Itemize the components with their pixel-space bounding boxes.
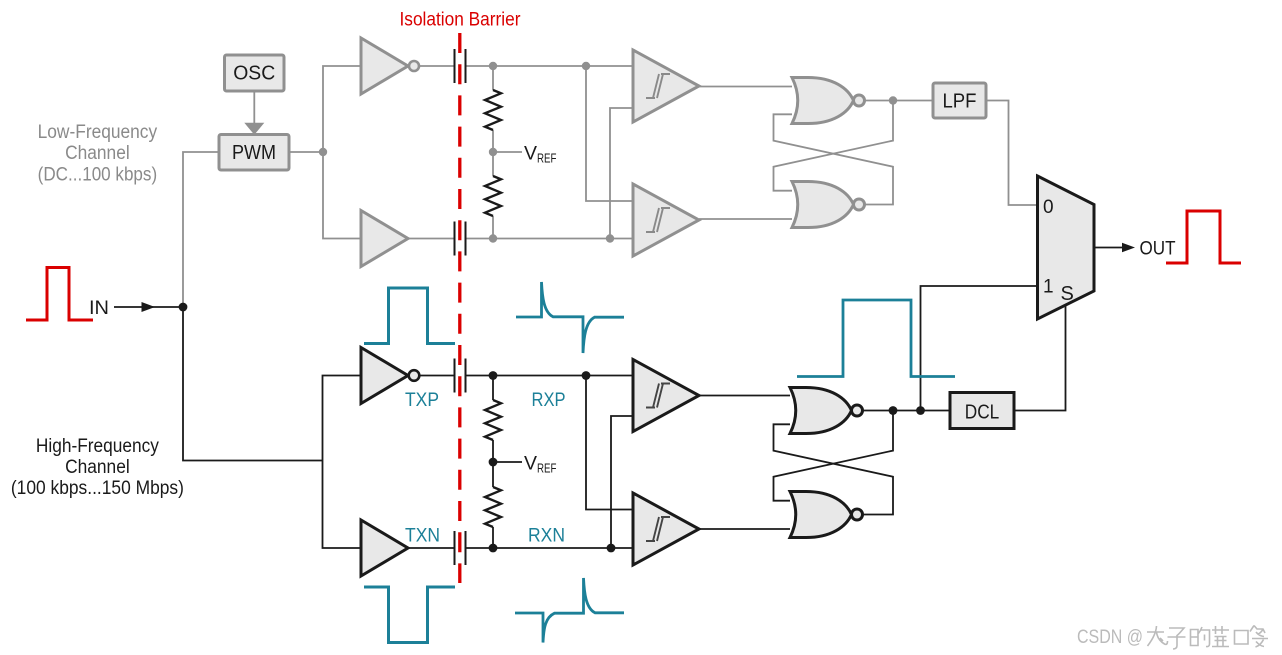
node top rail junction [489, 62, 497, 70]
buffer B2 (non-inverting, bottom) [361, 211, 408, 267]
svg-text:OUT: OUT [1140, 239, 1176, 260]
wire resistor mid column lower [492, 216, 494, 239]
node bottom rail to S1 branch [606, 234, 614, 242]
wire TXN output to cap C4 [409, 547, 454, 549]
PWM box [219, 135, 289, 171]
LPF box [933, 83, 986, 118]
bubble TXP output [409, 370, 420, 381]
arrowhead OSC to PWM [244, 123, 264, 135]
mux [1038, 176, 1095, 319]
wire divider mid column upper [492, 440, 494, 487]
bubble G3 output [852, 405, 863, 416]
svg-text:CSDN @: CSDN @ [1077, 627, 1143, 648]
wire resistor mid column upper [492, 130, 494, 176]
node RXP junction [489, 371, 498, 380]
schmitt symbol S3 [646, 384, 670, 408]
bubble G1 output [854, 95, 865, 106]
wire LPF output to mux input 0 [986, 101, 1038, 206]
wire S3 lower input [611, 416, 633, 548]
wire latch cross-coupling NOR3 node to NOR4 upper input [774, 411, 894, 501]
wire VREF stub bottom [493, 461, 522, 463]
bubble G2 output [854, 199, 865, 210]
node PWM output junction [319, 148, 327, 156]
NOR gate G1 [792, 78, 854, 124]
wire S1 lower input [610, 108, 633, 239]
wire S4 upper input [586, 376, 633, 510]
wire NOR1 output to LPF [865, 100, 934, 102]
resistor R1 [485, 90, 501, 130]
schmitt comparator S1 [633, 50, 699, 122]
schmitt symbol S4 [646, 517, 670, 541]
node VREF tap bottom [489, 458, 498, 467]
node RXN rail to S3 branch [607, 544, 616, 553]
wire NOR3 output to DCL [863, 410, 951, 412]
capacitor C4 [454, 531, 467, 565]
svg-text:0: 0 [1043, 197, 1054, 218]
wire IN trunk down [183, 307, 323, 461]
svg-text:(DC...100 kbps): (DC...100 kbps) [38, 164, 158, 185]
bubble G4 output [852, 509, 863, 520]
capacitor C2 [454, 222, 467, 256]
wire PWM input from IN node [183, 152, 219, 307]
schmitt symbol S2 [646, 208, 670, 232]
DCL box [950, 393, 1014, 429]
node VREF tap top [489, 148, 497, 156]
svg-text:Channel: Channel [65, 143, 130, 164]
wire divider top column [492, 376, 494, 401]
wire IN arrow line [114, 306, 183, 308]
wire divider bottom column [492, 527, 494, 548]
wire RXP rail [467, 375, 634, 377]
wire node to buffer2 input [323, 152, 361, 239]
node bottom rail junction [489, 234, 497, 242]
waveform latch output pulse [797, 300, 955, 377]
svg-text:TXN: TXN [405, 526, 440, 547]
wire TXP output to cap C3 [420, 375, 454, 377]
wire bottom rail RXN side [467, 238, 634, 240]
wire buffer2 output to cap C2 [409, 238, 454, 240]
node bottom latch junction 2 [916, 406, 925, 415]
wire VREF stub top [493, 151, 522, 153]
wire buffer1 output to cap C1 [419, 65, 454, 67]
oscillator box OSC [225, 55, 285, 91]
wire RXN rail [467, 547, 634, 549]
waveform TXN pulse (inverted) [364, 587, 455, 643]
wire PWM output to node [289, 151, 323, 153]
waveform TXP pulse [364, 288, 455, 344]
NOR gate G3 [790, 388, 852, 434]
svg-text:1: 1 [1043, 277, 1054, 298]
wire node to buffer1 input [323, 66, 361, 152]
resistor R2 [485, 176, 501, 216]
waveform RXP spikes [516, 282, 624, 353]
wire latch cross-coupling from NOR1 lower input to NOR2 output [774, 114, 894, 204]
wire trunk to TXN input [323, 461, 362, 549]
NOR gate G2 [792, 182, 854, 228]
buffer TXP (inverting) [361, 348, 408, 404]
wire DCL output to mux select S [1014, 305, 1066, 411]
wire latch node to mux input 1 [921, 286, 1038, 411]
buffer B1 (inverting, top) [361, 38, 408, 94]
svg-text:(100 kbps...150 Mbps): (100 kbps...150 Mbps) [11, 478, 184, 499]
svg-text:High-Frequency: High-Frequency [36, 436, 159, 457]
svg-text:RXN: RXN [528, 526, 565, 547]
wire S1 output to NOR1 [699, 86, 792, 88]
waveform OUT pulse (red) [1166, 211, 1241, 263]
svg-text:IN: IN [89, 298, 109, 319]
svg-text:Low-Frequency: Low-Frequency [38, 122, 158, 143]
svg-text:Channel: Channel [65, 457, 130, 478]
schmitt comparator S4 [633, 493, 699, 565]
svg-text:LPF: LPF [943, 91, 977, 113]
wire S2 upper input [586, 66, 633, 201]
wire mux output [1094, 247, 1123, 249]
bubble B1 output [409, 61, 419, 71]
wire latch cross-coupling from NOR1 output node to NOR2 upper input [774, 101, 894, 191]
svg-text:OSC: OSC [233, 63, 275, 85]
node RXN junction [489, 544, 498, 553]
node top rail to S2 branch [582, 62, 590, 70]
resistor R3 [485, 400, 501, 440]
isolation barrier dashed line [458, 33, 461, 583]
waveform IN pulse (red) [26, 268, 93, 321]
node bottom latch junction 1 [889, 406, 898, 415]
node RXP rail to S4 branch [582, 371, 591, 380]
svg-text:S: S [1061, 283, 1074, 305]
buffer TXN (non-inverting) [361, 520, 408, 576]
wire S2 output to NOR2 [699, 218, 792, 220]
NOR gate G4 [790, 492, 852, 538]
waveform RXN spikes [515, 578, 624, 643]
wire resistor top column [492, 66, 494, 90]
svg-text:TXP: TXP [405, 390, 439, 411]
wire OSC to PWM [253, 91, 255, 126]
resistor R4 [485, 487, 501, 527]
watermark CJK glyphs [1147, 626, 1268, 650]
arrowhead OUT [1122, 243, 1135, 252]
capacitor C3 [454, 359, 467, 393]
node latch output junction [889, 96, 897, 104]
wire S3 output to NOR3 [699, 395, 790, 397]
wire top rail RXP side [467, 65, 634, 67]
node IN junction [179, 303, 188, 312]
arrowhead IN [142, 302, 156, 312]
schmitt comparator S2 [633, 184, 699, 256]
wire S4 output to NOR4 [699, 528, 790, 530]
svg-text:RXP: RXP [532, 390, 566, 411]
schmitt symbol S1 [646, 74, 670, 98]
svg-text:DCL: DCL [965, 402, 1000, 424]
wire latch cross-coupling NOR3 lower input to NOR4 output [774, 424, 894, 514]
capacitor C1 [454, 49, 467, 83]
schmitt comparator S3 [633, 360, 699, 432]
wire trunk to TXP input [323, 376, 362, 461]
svg-text:Isolation Barrier: Isolation Barrier [400, 10, 522, 31]
svg-text:PWM: PWM [232, 142, 276, 164]
